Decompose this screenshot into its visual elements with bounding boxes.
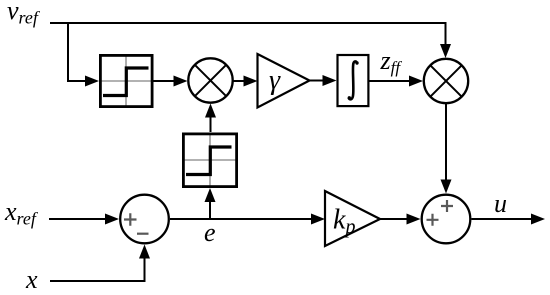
wire u output (472, 214, 546, 225)
wire G2 to summer S2 (380, 214, 421, 225)
wire vref top line to multiplier U2 (50, 23, 451, 58)
summer S1 (120, 195, 169, 244)
wire G1 to integrator I1 (310, 75, 337, 86)
gain G1 gamma (258, 54, 310, 108)
wire N2 up to multiplier U1 (205, 104, 216, 133)
wire xref to summer S1 (49, 214, 119, 225)
sign block N2 (183, 134, 236, 187)
wire vref branch down to sign block N1 (68, 23, 99, 87)
svg-text:e: e (204, 218, 216, 247)
gain G2 kp (325, 191, 380, 246)
wire U1 to gain G1 (234, 76, 258, 87)
sign block N1 (100, 55, 152, 106)
svg-text:u: u (494, 189, 507, 218)
multiplier U2 (424, 59, 468, 103)
wire e line S1 to gain G2 (170, 214, 325, 225)
wire e branch up to sign block N2 (205, 188, 216, 219)
wire x up into summer S1 (50, 245, 150, 282)
wire N1 to multiplier U1 (153, 76, 188, 87)
integrator I1 (338, 55, 369, 106)
svg-text:γ: γ (269, 65, 281, 96)
svg-text:x: x (25, 265, 38, 294)
multiplier U1 (188, 58, 232, 102)
wire U2 down to summer S2 (441, 104, 452, 194)
wire I1 to multiplier U2 (370, 76, 424, 87)
summer S2 (422, 195, 471, 244)
